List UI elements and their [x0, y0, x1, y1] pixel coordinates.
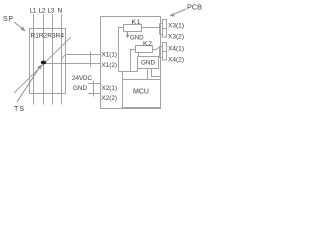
wire L1	[33, 14, 35, 105]
svg-text:X1(2): X1(2)	[102, 62, 118, 69]
ground rail wire	[119, 71, 138, 73]
svg-text:GND: GND	[141, 60, 155, 67]
svg-text:K1: K1	[132, 19, 141, 26]
svg-text:PCB: PCB	[187, 5, 202, 12]
leader arrow TS	[17, 65, 42, 103]
wire rail to GND box	[137, 69, 139, 72]
svg-text:X4(1): X4(1)	[168, 46, 184, 53]
connector X4 inner bar	[159, 47, 161, 58]
svg-text:24VDC: 24VDC	[72, 75, 92, 82]
svg-text:X4(2): X4(2)	[168, 57, 184, 64]
svg-text:L2: L2	[39, 8, 46, 15]
svg-text:N: N	[58, 8, 63, 15]
svg-text:GND: GND	[73, 85, 87, 92]
wire K1 coil to X3	[142, 27, 160, 29]
connector X3 inner bar	[159, 24, 161, 35]
svg-text:TS: TS	[14, 106, 24, 113]
wire X3 pin2 stub	[160, 34, 163, 36]
PCB board outline	[101, 17, 161, 109]
svg-text:X1(1): X1(1)	[102, 52, 118, 59]
terminal block X4	[163, 43, 167, 61]
GND net box	[138, 57, 159, 69]
svg-text:X2(1): X2(1)	[102, 85, 118, 92]
surge protector box SP (R1R2R3R4)	[30, 29, 66, 94]
wire L3	[52, 14, 54, 105]
wire GND to X2(2)	[88, 93, 101, 95]
MCU box	[123, 80, 161, 108]
relay coil K2	[136, 46, 153, 53]
wire 24VDC to X2(1)	[88, 83, 101, 85]
wire K1 left pin to ground rail	[119, 28, 124, 72]
wire N to X1(1)	[62, 55, 101, 59]
relay coil K1	[124, 25, 142, 32]
svg-text:X2(2): X2(2)	[102, 95, 118, 102]
wire K2 coil to X4	[153, 47, 163, 50]
wire junction dot to X1(2)	[46, 63, 101, 65]
svg-text:X3(1): X3(1)	[168, 23, 184, 30]
junction node dot	[41, 61, 46, 65]
connector X1 bar	[90, 52, 92, 67]
wire rail to MCU	[122, 72, 124, 80]
wire K2 to GND box	[138, 53, 140, 57]
svg-text:SP: SP	[3, 16, 13, 23]
ground symbol below K1	[126, 32, 130, 39]
svg-text:L3: L3	[48, 8, 55, 15]
svg-text:MCU: MCU	[133, 89, 149, 96]
wire N	[61, 14, 63, 105]
connector X2 bar	[93, 81, 95, 97]
leader arrow SP	[14, 22, 26, 32]
svg-text:R1R2R3R4: R1R2R3R4	[31, 33, 65, 40]
terminal block X3	[163, 20, 167, 38]
svg-text:K2: K2	[143, 41, 152, 48]
svg-text:X3(2): X3(2)	[168, 34, 184, 41]
wire GND box to MCU	[147, 69, 149, 80]
wire X3 pin1 stub	[160, 23, 163, 25]
diagonal sensor line through box	[14, 37, 71, 93]
wire L2	[43, 14, 45, 105]
wire X4 pin2 stub	[160, 57, 163, 59]
wire K2 left pin down to rail	[131, 50, 136, 72]
wire GND box to board edge	[152, 69, 161, 77]
svg-text:L1: L1	[30, 8, 37, 15]
svg-text:GND: GND	[130, 35, 144, 42]
leader arrow PCB	[170, 9, 187, 17]
